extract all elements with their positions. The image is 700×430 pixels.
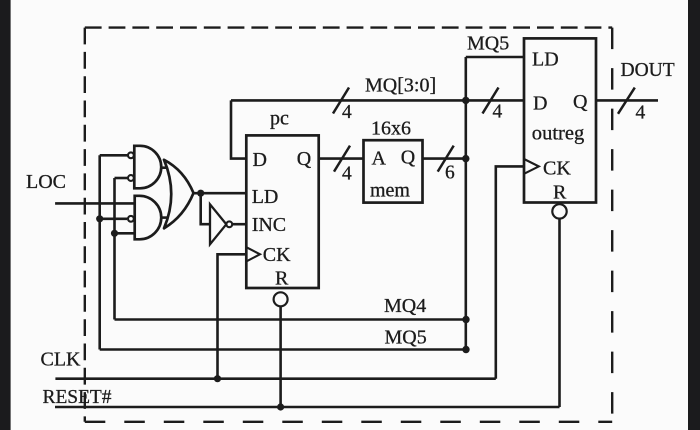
AND gate G2 (bottom, 3 inputs) (135, 196, 162, 240)
wire AND2 output (158, 216, 172, 219)
svg-text:MQ4: MQ4 (384, 295, 426, 317)
svg-text:CLK: CLK (41, 349, 82, 371)
svg-text:A: A (372, 148, 387, 170)
svg-text:4: 4 (342, 102, 352, 123)
junction OR output node (197, 190, 204, 197)
right black bar (688, 0, 700, 430)
svg-text:4: 4 (342, 163, 352, 184)
svg-text:R: R (275, 268, 289, 290)
junction rail2 / G2 stub (111, 230, 118, 237)
svg-text:LD: LD (252, 186, 279, 208)
junction rail1 / G2 stub (96, 215, 103, 222)
junction MQ rail / MQ5 (462, 346, 469, 353)
wire MQ5 horizontal (100, 348, 466, 351)
svg-text:Q: Q (297, 148, 312, 170)
svg-text:Q: Q (401, 147, 416, 169)
junction MQ rail / MQ4 (462, 316, 469, 323)
bus width slash on mem Q (438, 146, 454, 172)
outreg R reset bubble (552, 204, 566, 218)
wire AND1 output (158, 166, 172, 169)
pc R reset bubble (274, 292, 288, 306)
wire outreg CK from CLK line (496, 166, 524, 378)
svg-text:D: D (533, 93, 547, 115)
svg-text:pc: pc (270, 108, 289, 130)
wire OR output to pc LD (190, 192, 246, 195)
junction MQ rail / mem Q (462, 155, 469, 162)
svg-text:RESET#: RESET# (43, 386, 112, 408)
bus width slash on DOUT (618, 88, 635, 114)
wire MQ rail vertical (464, 57, 467, 350)
svg-text:D: D (253, 149, 267, 171)
wire pc R down to RESET# (279, 306, 282, 407)
svg-text:CK: CK (543, 158, 571, 180)
bus width slash on MQ[3:0] left (333, 88, 349, 114)
wire inverter output to pc INC (232, 223, 246, 226)
svg-text:LOC: LOC (26, 171, 66, 193)
memory mem block (364, 140, 423, 202)
inverter U1 triangle (210, 204, 226, 244)
svg-text:mem: mem (370, 179, 410, 201)
svg-text:MQ[3:0]: MQ[3:0] (365, 75, 436, 97)
wire rail1 vertical (MQ5 up to gates) (98, 155, 101, 349)
pc CK edge triangle (246, 247, 260, 261)
wire LOC input line (55, 202, 137, 205)
wire top gate input stub 1 (100, 154, 128, 157)
svg-text:4: 4 (493, 102, 503, 123)
svg-text:INC: INC (252, 214, 286, 236)
svg-text:LD: LD (532, 49, 559, 71)
svg-text:4: 4 (636, 103, 646, 124)
register outreg block (524, 38, 596, 202)
svg-text:DOUT: DOUT (621, 60, 675, 81)
wire pc D drop vertical (231, 100, 246, 158)
wire pc Q to mem A (319, 157, 364, 160)
inverter U1 bubble (226, 221, 232, 227)
svg-text:16x6: 16x6 (371, 118, 411, 140)
wire top gate input stub 2 (115, 177, 129, 180)
wire pc CK from CLK line (218, 254, 247, 378)
svg-text:MQ5: MQ5 (467, 33, 509, 55)
wire rail2 vertical (MQ4 up to gates) (113, 178, 116, 320)
bus width slash on MQ[3:0] right (483, 88, 499, 114)
wire MQ4 horizontal (115, 318, 467, 321)
junction CLK / pc CK (214, 375, 221, 382)
svg-text:MQ5: MQ5 (385, 326, 427, 348)
outreg CK edge triangle (524, 159, 539, 174)
wire CLK line (55, 377, 495, 380)
wire bottom gate input stub 2 (115, 232, 138, 235)
input bubble G2 middle (128, 216, 134, 222)
junction RESET# / pc R (277, 403, 284, 410)
svg-text:6: 6 (445, 163, 455, 184)
svg-text:Q: Q (573, 91, 588, 113)
wire mem Q to MQ rail (421, 157, 466, 160)
wire MQ[3:0] bus horizontal (231, 99, 524, 102)
left black bar (0, 0, 11, 430)
svg-text:CK: CK (263, 244, 291, 266)
svg-text:outreg: outreg (532, 123, 585, 145)
wire RESET# line (55, 406, 560, 409)
dashed enclosure border (85, 28, 612, 422)
wire outreg R down to RESET# (558, 219, 561, 407)
OR gate G3 (164, 160, 194, 229)
svg-text:R: R (553, 182, 567, 204)
input bubble G1 bottom (128, 175, 134, 181)
wire MQ5 to outreg LD (466, 56, 524, 59)
AND gate G1 (top, 2 inverted inputs) (134, 146, 161, 189)
input bubble G1 top (128, 152, 134, 158)
register pc block (246, 135, 318, 288)
junction MQ rail / bus (462, 97, 469, 104)
wire bottom gate input stub 1 (100, 218, 127, 221)
bus width slash on pc Q (334, 146, 350, 172)
wire inverter input bend (201, 193, 210, 224)
wire DOUT output (596, 99, 658, 102)
